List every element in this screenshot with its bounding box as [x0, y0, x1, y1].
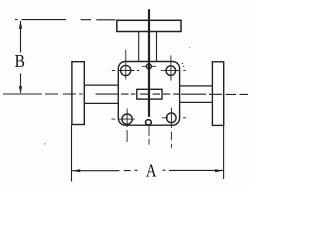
- yoke left leg: [138, 32, 140, 62]
- scan speck lower-left: [44, 143, 46, 144]
- right pipe bottom wall: [180, 101, 213, 103]
- centerline bolt top-right vertical: [170, 56, 172, 81]
- bolt hole top-left: [121, 65, 131, 75]
- centerline bolt bottom-right horizontal: [162, 117, 186, 119]
- svg-text:B: B: [15, 51, 25, 71]
- arrowhead A left: [72, 169, 80, 172]
- right pipe top wall: [180, 85, 213, 87]
- pipe axis centerline through body: [121, 93, 179, 95]
- scan speck near top-right bolt: [182, 63, 184, 67]
- centerline bolt top-left horizontal: [112, 70, 139, 72]
- stem bottom circle: [146, 120, 152, 125]
- centerline bolt bottom-left horizontal: [112, 118, 135, 120]
- arrowhead B top: [19, 20, 22, 29]
- valve body: [118, 62, 179, 126]
- centerline bolt top-left vertical: [125, 50, 127, 80]
- dimension line A: [72, 169, 224, 172]
- stem top circle: [147, 64, 152, 69]
- dimension A extension left: [71, 125, 73, 182]
- extension line from top plate (for dim B): [15, 19, 116, 21]
- dimension line B vertical: [20, 21, 22, 93]
- bolt hole bottom-right: [167, 113, 177, 123]
- centerline bolt bottom-left vertical: [126, 109, 128, 143]
- stem centerline below body: [148, 125, 150, 145]
- left pipe top wall: [84, 84, 118, 86]
- bolt hole top-right: [166, 66, 176, 76]
- centerline bolt bottom-right vertical: [170, 108, 172, 149]
- scan speck upper-right: [189, 47, 190, 48]
- stem: [148, 9, 150, 117]
- pipe axis centerline right: [181, 93, 248, 95]
- gland rectangle: [137, 89, 162, 99]
- pipe axis centerline through flange and pipe: [96, 93, 118, 95]
- arrowhead B bottom: [19, 86, 22, 93]
- dimension A extension right: [223, 126, 225, 179]
- left pipe bottom wall: [84, 102, 118, 104]
- left flange: [72, 62, 84, 125]
- arrowhead A right: [215, 169, 223, 172]
- centerline stem top circle horizontal: [142, 65, 156, 67]
- top mounting plate: [117, 20, 181, 31]
- svg-text:A: A: [146, 160, 157, 181]
- right flange: [212, 62, 223, 126]
- centerline bolt top-right horizontal: [161, 70, 186, 72]
- bolt hole bottom-left: [122, 114, 132, 124]
- paper background: [0, 0, 250, 187]
- yoke right leg: [156, 32, 158, 62]
- pipe axis centerline left: [3, 93, 83, 95]
